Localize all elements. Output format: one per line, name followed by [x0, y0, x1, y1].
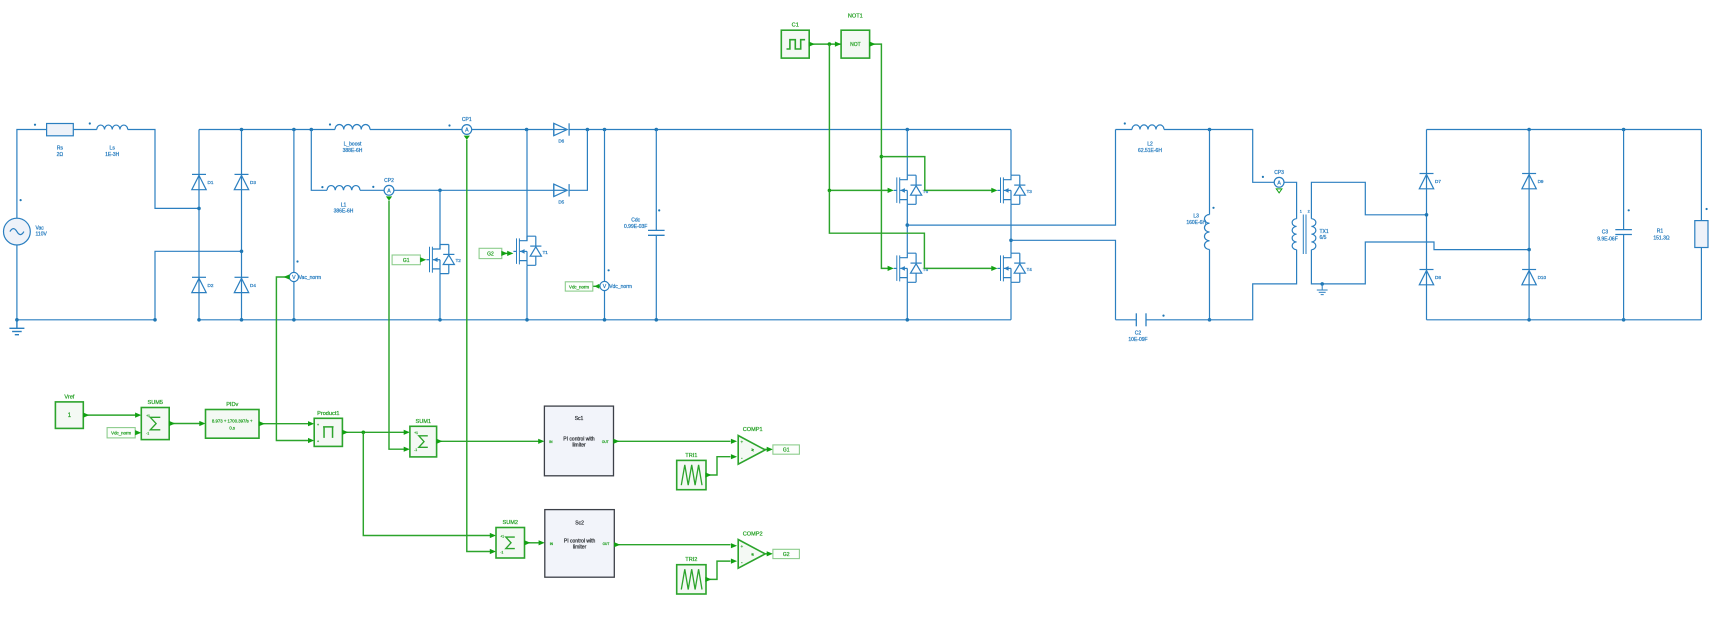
- svg-text:D6: D6: [558, 139, 564, 144]
- wire right leg bottom: [1010, 282, 1012, 320]
- wire D3 cathode to top rail: [241, 130, 243, 175]
- inductor Ls: [97, 125, 128, 129]
- wire Vdc_norm bottom: [604, 291, 606, 320]
- junction T2 source bottom: [438, 318, 442, 322]
- sum block SUM1: [410, 426, 437, 457]
- svg-text:1: 1: [1300, 210, 1302, 214]
- capacitor C2: [1136, 313, 1146, 326]
- svg-text:Cdc: Cdc: [631, 218, 640, 224]
- svg-text:+: +: [317, 423, 319, 427]
- svg-text:+: +: [740, 440, 743, 445]
- svg-text:D8: D8: [1435, 275, 1441, 280]
- subsystem Sc1 PI control with limiter: [544, 406, 613, 476]
- product block Product1: [314, 418, 342, 446]
- from tag G1: [392, 255, 420, 265]
- diode D5: [554, 184, 569, 196]
- ammeter CP2: [384, 185, 394, 195]
- svg-text:T2: T2: [456, 258, 462, 263]
- wire Vdc_norm meter to tag: [593, 285, 600, 287]
- wire T1 drain: [526, 130, 528, 241]
- wire C3 bottom: [1623, 235, 1625, 320]
- arrowhead TRI1 out: [705, 472, 711, 477]
- arrowhead COMP1 plus in: [731, 439, 737, 444]
- wire C1 to NOT1: [809, 43, 841, 45]
- svg-text:+1: +1: [500, 534, 504, 538]
- svg-text:L1: L1: [341, 202, 347, 208]
- wire Vref to SUM5: [83, 414, 135, 416]
- triangle generator TRI1: [677, 460, 706, 489]
- wire D1 anode to D2 cathode: [198, 190, 200, 278]
- triangle wave icon TRI1: [681, 465, 702, 485]
- wire right leg middle: [1010, 204, 1012, 253]
- svg-text:V: V: [292, 275, 296, 281]
- svg-text:OUT: OUT: [603, 542, 610, 546]
- signal port CP1: [464, 136, 470, 140]
- wire bridge top rail to L_boost: [199, 129, 335, 131]
- polarity dot C2: [1162, 315, 1164, 317]
- wire CP3 to TX1 primary: [1284, 182, 1297, 218]
- svg-text:110V: 110V: [36, 232, 48, 238]
- wire TRI2 to COMP2: [706, 561, 731, 579]
- wire T1 source to bottom rail: [526, 265, 528, 320]
- wire D7 anode to D8 cathode: [1426, 189, 1428, 270]
- svg-text:NOT1: NOT1: [848, 14, 863, 20]
- wire D7 top: [1426, 130, 1428, 174]
- svg-text:T5: T5: [923, 267, 929, 272]
- junction AC bottom: [15, 318, 19, 322]
- wire bridge out A to tank top: [907, 130, 1115, 226]
- polarity dot R1: [1706, 208, 1708, 210]
- transistor T1: [513, 236, 541, 265]
- svg-text:V: V: [603, 284, 607, 290]
- svg-text:6/5: 6/5: [1320, 235, 1327, 241]
- arrowhead Sc2 in: [539, 540, 545, 545]
- junction riser bottom: [153, 318, 157, 322]
- wire R1 top: [1700, 130, 1702, 221]
- wire AC source bottom to ground rail: [16, 245, 18, 320]
- arrowhead T5 gate: [888, 266, 894, 271]
- svg-text:151.3Ω: 151.3Ω: [1653, 235, 1670, 241]
- arrowhead SUM5 out: [169, 421, 175, 426]
- wire D2 anode to bottom rail: [198, 293, 200, 320]
- polarity dot CP2: [372, 186, 374, 188]
- svg-text:388E-6H: 388E-6H: [343, 148, 363, 154]
- wire L_boost to CP1: [370, 129, 462, 131]
- wire T2 source to bottom rail: [439, 274, 441, 320]
- triangle generator TRI2: [677, 565, 706, 594]
- diode D7: [1419, 174, 1433, 189]
- svg-text:A: A: [387, 188, 391, 194]
- svg-text:COMP1: COMP1: [743, 427, 763, 433]
- inductor L3: [1204, 215, 1209, 250]
- sum block SUM5: [141, 408, 169, 440]
- wire CP2 to D5: [394, 189, 554, 191]
- svg-text:Sc2: Sc2: [575, 520, 584, 526]
- svg-text:2: 2: [1308, 210, 1310, 214]
- inductor L1: [327, 186, 360, 191]
- junction AC2 node: [240, 250, 244, 254]
- wire CP1 measurement to SUM2: [467, 140, 490, 552]
- wire dc+ rail: [569, 129, 1011, 131]
- junction rectifier in B: [1527, 248, 1531, 252]
- transistor T4: [997, 253, 1025, 282]
- junction Vac_norm top: [292, 128, 296, 132]
- wire D8 anode to bottom rail: [1426, 285, 1428, 320]
- ammeter CP3: [1274, 177, 1284, 187]
- wire riser to bridge node D3-D4: [155, 251, 242, 319]
- junction L1 branch: [310, 128, 314, 132]
- junction rectifier in A: [1425, 213, 1429, 217]
- polarity dot L1: [321, 186, 323, 188]
- capacitor C3: [1615, 230, 1632, 235]
- sum block SUM2: [496, 528, 525, 559]
- diode D9: [1522, 174, 1536, 189]
- svg-text:A: A: [465, 128, 469, 134]
- wire Product1 to SUM1: [342, 431, 404, 433]
- arrowhead NOT1 out: [869, 42, 875, 47]
- svg-text:D5: D5: [558, 199, 564, 204]
- wire PIDv to Product1: [259, 423, 308, 425]
- svg-text:D2: D2: [208, 283, 214, 288]
- svg-text:0.99E-03F: 0.99E-03F: [624, 224, 647, 230]
- junction D4 bottom: [240, 318, 244, 322]
- transistor T5 (bridge bottom-left): [894, 253, 922, 282]
- svg-text:CP3: CP3: [1274, 170, 1284, 176]
- svg-text:C3: C3: [1602, 229, 1609, 235]
- svg-text:D10: D10: [1538, 275, 1547, 280]
- arrowhead Vac_norm out: [283, 274, 289, 279]
- arrowhead Sc2 out: [614, 542, 620, 547]
- junction C3 top: [1622, 128, 1626, 132]
- junction T1 drain: [525, 128, 529, 132]
- wire TX1 secondary top to rectifier: [1311, 182, 1426, 218]
- wire output top rail: [1427, 129, 1702, 131]
- svg-text:PI control with: PI control with: [563, 436, 595, 442]
- arrowhead Vref out: [83, 413, 89, 418]
- polarity dot CP1: [448, 124, 450, 126]
- wire Sc1 to COMP1: [614, 440, 731, 442]
- svg-text:1E-3H: 1E-3H: [105, 152, 120, 158]
- wire branch to L1: [311, 130, 327, 191]
- junction left leg bottom rail: [906, 318, 910, 322]
- svg-text:C2: C2: [1135, 331, 1142, 337]
- arrowhead G2 tag in: [767, 551, 773, 556]
- arrowhead COMP2 minus in: [731, 559, 737, 564]
- arrowhead SUM2 out: [524, 540, 530, 545]
- wire TX1 secondary bottom to rectifier: [1311, 242, 1529, 284]
- svg-text:2Ω: 2Ω: [57, 152, 64, 158]
- wire COMP2 to G2 tag: [765, 553, 768, 555]
- arrowhead G2 tag out: [501, 251, 507, 256]
- svg-text:G2: G2: [487, 251, 494, 257]
- svg-text:Vref: Vref: [64, 394, 74, 400]
- wire L1 to CP2: [360, 189, 384, 191]
- svg-text:C1: C1: [792, 23, 799, 29]
- wire NOT1 to T5 gate: [870, 44, 889, 268]
- svg-text:SUM2: SUM2: [502, 520, 518, 526]
- constant Vref: [55, 402, 83, 429]
- ground TX1 secondary: [1317, 284, 1328, 295]
- subsystem Sc2 PI control with limiter: [545, 510, 615, 578]
- svg-text:D4: D4: [250, 283, 256, 288]
- diode D1: [192, 174, 206, 189]
- wire bottom dc rail: [199, 319, 1011, 321]
- transistor T2: [426, 245, 454, 274]
- wire T2 drain: [439, 190, 441, 249]
- wire D4 anode to bottom rail: [241, 293, 243, 320]
- arrowhead TRI2 out: [705, 577, 711, 582]
- wire right leg top: [1010, 130, 1012, 176]
- svg-text:Sc1: Sc1: [575, 416, 584, 422]
- svg-text:limiter: limiter: [573, 545, 587, 551]
- arrowhead SUM1 plus in: [404, 430, 410, 435]
- svg-text:A: A: [1277, 180, 1281, 186]
- wire Vdc_norm top: [604, 130, 606, 282]
- wire bottom rail AC to riser: [17, 319, 155, 321]
- inductor L2: [1132, 125, 1164, 130]
- arrowhead Product1 out: [342, 430, 348, 435]
- goto tag G2: [773, 549, 800, 558]
- wire tank top left: [1116, 129, 1133, 131]
- junction D9 top: [1527, 128, 1531, 132]
- svg-text:D9: D9: [1538, 179, 1544, 184]
- wire COMP1 to G1 tag: [765, 448, 768, 450]
- svg-text:CP2: CP2: [384, 178, 394, 184]
- svg-text:Vac: Vac: [36, 225, 45, 231]
- svg-text:-1: -1: [146, 432, 149, 436]
- svg-text:Rs: Rs: [57, 146, 64, 152]
- wire SUM2 to Sc2: [525, 542, 539, 544]
- svg-text:SUM1: SUM1: [415, 419, 431, 425]
- svg-text:D3: D3: [250, 180, 256, 185]
- arrowhead SUM5 minus in: [135, 430, 141, 435]
- wire CP2 measurement to SUM1: [389, 201, 404, 450]
- svg-text:PIDv: PIDv: [226, 402, 238, 408]
- wire Vac_norm bottom: [293, 282, 295, 320]
- signal port CP3 (open arrow): [1276, 189, 1282, 193]
- svg-text:L_boost: L_boost: [344, 142, 362, 148]
- diode D10: [1522, 270, 1536, 285]
- junction C1 gate branch: [828, 189, 832, 193]
- diode D4: [234, 277, 248, 292]
- square wave icon: [787, 40, 806, 49]
- junction Product1 out: [362, 431, 366, 435]
- arrowhead T3 gate: [991, 188, 997, 193]
- svg-text:+: +: [740, 544, 743, 549]
- voltmeter Vdc_norm meter: [600, 281, 609, 290]
- diode D6: [554, 123, 569, 135]
- svg-text:G2: G2: [783, 552, 790, 558]
- svg-text:T1: T1: [543, 250, 549, 255]
- junction right leg output: [1009, 239, 1013, 243]
- svg-text:Ls: Ls: [110, 146, 116, 152]
- goto tag G1: [773, 445, 800, 454]
- svg-text:TRI2: TRI2: [685, 557, 697, 563]
- svg-text:limiter: limiter: [572, 443, 586, 449]
- junction D10 bottom: [1527, 318, 1531, 322]
- wire L3 bottom: [1209, 250, 1211, 320]
- svg-text:10E-09F: 10E-09F: [1128, 337, 1147, 343]
- junction L3 bottom: [1208, 318, 1212, 322]
- wire D1 cathode to top rail: [198, 130, 200, 175]
- wire R1 bottom: [1700, 248, 1702, 320]
- arrowhead PIDv out: [259, 421, 265, 426]
- polarity dot Vac_norm: [296, 260, 298, 262]
- wire C3 top: [1623, 130, 1625, 230]
- svg-text:Vdc_norm: Vdc_norm: [111, 431, 131, 436]
- svg-text:NOT: NOT: [850, 42, 861, 48]
- svg-text:D7: D7: [1435, 179, 1441, 184]
- voltmeter Vac_norm: [289, 272, 298, 281]
- svg-text:≷: ≷: [751, 448, 754, 452]
- ground: [9, 320, 24, 335]
- svg-text:SUM5: SUM5: [147, 400, 163, 406]
- polarity dot Rs: [34, 124, 36, 126]
- arrowhead COMP1 minus in: [731, 454, 737, 459]
- wire D9 top: [1528, 130, 1530, 174]
- wire C1 to T6 gate: [829, 44, 888, 190]
- wire D3 anode to D4 cathode: [241, 190, 243, 278]
- svg-text:COMP2: COMP2: [743, 531, 763, 537]
- junction T1 source bottom: [525, 318, 529, 322]
- wire output bottom rail: [1427, 319, 1702, 321]
- wire D5 cathode to dc+ rail: [569, 130, 587, 191]
- signal port CP2: [386, 196, 392, 200]
- junction Vdc_norm bottom: [603, 318, 607, 322]
- polarity dot Ls: [89, 122, 91, 124]
- polarity dot CP3: [1262, 176, 1264, 178]
- junction left leg output: [906, 223, 910, 227]
- wire Ls to bridge node D1-D2: [128, 130, 199, 209]
- wire left leg bottom: [906, 282, 908, 320]
- goto tag Vdc_norm: [565, 282, 593, 291]
- wire Vac_norm measurement to Product1: [276, 277, 308, 441]
- junction C3 bottom: [1622, 318, 1626, 322]
- arrowhead Product1 in1: [308, 421, 314, 426]
- wire TRI1 to COMP1: [706, 457, 731, 475]
- transformer TX1: [1292, 215, 1316, 255]
- wire CP1 to D6: [472, 129, 554, 131]
- wire left leg top: [906, 130, 908, 176]
- svg-text:-1: -1: [414, 448, 417, 452]
- svg-text:+1: +1: [414, 431, 418, 435]
- arrowhead Sc1 in: [538, 439, 544, 444]
- svg-text:Vac_norm: Vac_norm: [299, 275, 321, 281]
- wire Rs to Ls: [73, 129, 97, 131]
- junction Vdc_norm top: [603, 128, 607, 132]
- svg-text:62.51E-6H: 62.51E-6H: [1138, 148, 1162, 154]
- arrowhead SUM2 plus in: [490, 533, 496, 538]
- svg-text:D1: D1: [208, 180, 214, 185]
- junction D3 top: [240, 128, 244, 132]
- pulse generator C1: [781, 30, 809, 58]
- svg-text:PI control with: PI control with: [564, 538, 596, 544]
- svg-text:Product1: Product1: [317, 411, 339, 417]
- svg-text:L2: L2: [1147, 142, 1153, 148]
- junction D2 bottom: [197, 318, 201, 322]
- wire tank bottom to C2: [1116, 319, 1137, 321]
- arrowhead T6 gate: [888, 188, 894, 193]
- arrowhead G1 tag in: [767, 447, 773, 452]
- svg-text:CP1: CP1: [462, 117, 472, 123]
- svg-text:-: -: [741, 560, 743, 566]
- diode D3: [234, 174, 248, 189]
- arrowhead PIDv in: [199, 421, 205, 426]
- arrowhead Product1 in2: [308, 438, 314, 443]
- wire left leg middle: [906, 204, 908, 253]
- svg-text:+: +: [317, 440, 319, 444]
- transistor T6 (bridge top-left): [894, 175, 922, 204]
- junction Cdc bottom: [655, 318, 659, 322]
- wire Vac_norm top: [293, 130, 295, 273]
- arrowhead NOT1 in: [835, 42, 841, 47]
- polarity dot Cdc: [658, 209, 660, 211]
- polarity dot Vdc_norm: [608, 269, 610, 271]
- wire Cdc top: [655, 130, 657, 231]
- diode D8: [1419, 270, 1433, 285]
- junction bridge left leg top: [906, 128, 910, 132]
- inductor L_boost: [335, 124, 370, 129]
- arrowhead SUM5 plus in: [135, 413, 141, 418]
- arrowhead T4 gate: [991, 266, 997, 271]
- svg-text:TX1: TX1: [1320, 229, 1329, 235]
- ammeter CP1: [462, 125, 472, 135]
- transistor T3: [997, 175, 1025, 204]
- svg-text:T6: T6: [923, 189, 929, 194]
- wire C1 to T4 gate: [829, 190, 992, 268]
- logic NOT1: [841, 30, 870, 58]
- svg-text:G1: G1: [403, 258, 410, 264]
- wire G2 tag to T1 gate: [502, 252, 508, 254]
- resistor Rs: [47, 124, 74, 136]
- comparator COMP1: [738, 436, 765, 465]
- svg-text:160E-6H: 160E-6H: [1186, 220, 1206, 226]
- junction Vac_norm bottom: [292, 318, 296, 322]
- wire D9 anode to D10 cathode: [1528, 189, 1530, 270]
- wire SUM5 to PIDv: [169, 423, 200, 425]
- polarity dot Vac: [20, 199, 22, 201]
- wire D10 anode to bottom rail: [1528, 285, 1530, 320]
- arrowhead T1 gate: [507, 251, 513, 256]
- PID controller PIDv: [206, 410, 260, 439]
- wire AC source top to Rs: [17, 130, 47, 219]
- svg-text:8.973 + 1700.397/s +: 8.973 + 1700.397/s +: [212, 418, 253, 423]
- svg-text:T3: T3: [1027, 189, 1033, 194]
- junction T2 drain: [438, 189, 442, 193]
- junction C1 signal: [828, 42, 832, 46]
- svg-text:386E-6H: 386E-6H: [334, 209, 354, 215]
- svg-text:+1: +1: [146, 414, 150, 418]
- svg-text:-1: -1: [500, 551, 503, 555]
- wire Cdc bottom: [655, 235, 657, 319]
- svg-text:OUT: OUT: [602, 440, 609, 444]
- junction Cdc top: [655, 128, 659, 132]
- arrowhead SUM1 out: [436, 439, 442, 444]
- svg-text:9.9E-06F: 9.9E-06F: [1597, 236, 1618, 242]
- junction NOT1 branch: [880, 155, 884, 159]
- wire bridge out B to tank bottom: [1011, 240, 1116, 319]
- triangle wave icon TRI2: [681, 569, 702, 589]
- svg-text:TRI1: TRI1: [685, 453, 697, 459]
- comparator COMP2: [738, 540, 765, 569]
- svg-text:G1: G1: [783, 447, 790, 453]
- resistor R1: [1695, 221, 1708, 248]
- svg-text:T4: T4: [1027, 267, 1033, 272]
- arrowhead Sc1 out: [613, 439, 619, 444]
- polarity dot C3: [1628, 209, 1630, 211]
- wire Product1 branch to SUM2: [363, 432, 490, 535]
- wire L2 to CP3: [1164, 130, 1274, 183]
